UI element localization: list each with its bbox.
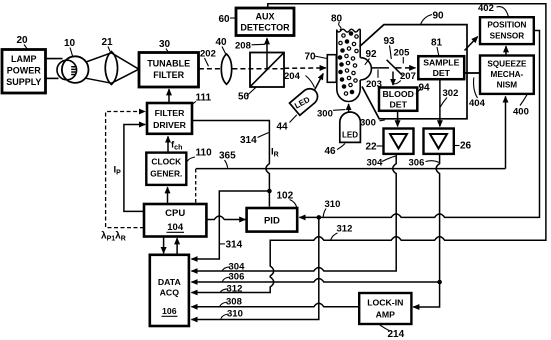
svg-text:203: 203	[366, 79, 382, 90]
svg-text:SUPPLY: SUPPLY	[6, 77, 41, 87]
svg-text:10: 10	[64, 38, 76, 49]
svg-text:80: 80	[331, 14, 343, 25]
svg-text:LOCK-IN: LOCK-IN	[367, 298, 403, 308]
svg-text:IP: IP	[114, 165, 122, 177]
svg-text:AUX: AUX	[255, 12, 274, 22]
svg-text:60: 60	[219, 14, 231, 25]
svg-text:DATA: DATA	[158, 277, 182, 287]
svg-text:404: 404	[469, 98, 486, 109]
svg-text:SQUEEZE: SQUEEZE	[487, 60, 527, 69]
svg-text:208: 208	[235, 41, 251, 52]
svg-text:81: 81	[431, 38, 443, 49]
svg-text:FILTER: FILTER	[155, 108, 185, 118]
svg-text:fch: fch	[171, 140, 182, 152]
svg-text:310: 310	[325, 199, 341, 210]
svg-text:308: 308	[226, 297, 242, 308]
svg-text:AMP: AMP	[376, 310, 396, 320]
svg-text:306: 306	[229, 272, 245, 283]
svg-text:DET: DET	[390, 100, 408, 110]
svg-text:300: 300	[360, 118, 376, 129]
svg-text:22: 22	[366, 142, 378, 153]
svg-text:106: 106	[162, 306, 177, 316]
svg-text:94: 94	[419, 83, 431, 94]
svg-text:POSITION: POSITION	[487, 21, 526, 30]
svg-text:207: 207	[400, 71, 416, 82]
svg-text:GENER.: GENER.	[150, 169, 182, 179]
svg-text:304: 304	[367, 158, 384, 169]
svg-text:DETECTOR: DETECTOR	[240, 23, 290, 33]
svg-text:44: 44	[277, 122, 289, 133]
svg-text:90: 90	[433, 11, 445, 22]
svg-text:306: 306	[409, 158, 425, 169]
svg-text:93: 93	[384, 36, 396, 47]
svg-text:202: 202	[200, 49, 216, 60]
svg-text:SENSOR: SENSOR	[490, 32, 525, 41]
svg-text:110: 110	[196, 148, 213, 159]
svg-text:400: 400	[513, 107, 529, 118]
svg-text:300: 300	[317, 109, 333, 120]
svg-text:314: 314	[240, 135, 257, 146]
svg-text:DRIVER: DRIVER	[153, 120, 187, 130]
svg-text:LED: LED	[342, 131, 358, 140]
svg-text:λP1λR: λP1λR	[101, 231, 126, 243]
svg-text:312: 312	[227, 284, 243, 295]
svg-text:205: 205	[394, 48, 411, 59]
svg-text:20: 20	[17, 35, 29, 46]
svg-text:204: 204	[284, 71, 301, 82]
svg-text:314: 314	[226, 240, 243, 251]
svg-text:214: 214	[388, 329, 405, 340]
svg-text:30: 30	[159, 39, 171, 50]
svg-text:312: 312	[337, 224, 353, 235]
svg-text:302: 302	[443, 88, 459, 99]
svg-text:NISM: NISM	[497, 81, 518, 90]
svg-text:70: 70	[305, 52, 317, 63]
svg-text:FILTER: FILTER	[153, 70, 184, 80]
svg-text:111: 111	[196, 93, 212, 104]
svg-text:50: 50	[238, 92, 250, 103]
svg-text:365: 365	[219, 151, 236, 162]
svg-text:POWER: POWER	[7, 66, 42, 76]
svg-text:92: 92	[366, 49, 378, 60]
svg-text:26: 26	[460, 141, 472, 152]
svg-text:CPU: CPU	[165, 208, 185, 219]
svg-text:TUNABLE: TUNABLE	[147, 59, 190, 69]
svg-text:DET: DET	[433, 68, 451, 78]
svg-text:104: 104	[167, 222, 184, 233]
svg-text:402: 402	[478, 3, 494, 14]
svg-text:46: 46	[325, 146, 337, 157]
svg-text:ACQ: ACQ	[160, 288, 180, 298]
svg-text:310: 310	[227, 309, 243, 320]
svg-text:LAMP: LAMP	[11, 54, 37, 64]
svg-text:BLOOD: BLOOD	[383, 89, 414, 99]
svg-text:40: 40	[216, 37, 228, 48]
svg-text:MECHA-: MECHA-	[491, 70, 524, 79]
svg-text:SAMPLE: SAMPLE	[423, 58, 459, 68]
svg-text:PID: PID	[264, 216, 280, 227]
svg-text:IR: IR	[271, 147, 279, 159]
svg-text:CLOCK: CLOCK	[151, 157, 181, 167]
svg-text:21: 21	[102, 37, 114, 48]
